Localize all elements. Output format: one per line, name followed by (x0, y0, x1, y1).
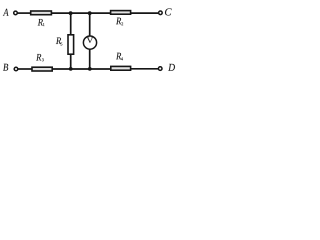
node C label (165, 8, 172, 15)
wire R4 to D (131, 68, 158, 70)
terminal A (14, 11, 18, 15)
wire R5 to bottom wire (70, 54, 72, 69)
label R2 (116, 18, 121, 25)
junction node H (bottom of voltmeter) (88, 67, 92, 71)
node A label (3, 9, 9, 16)
resistor R4 (111, 66, 131, 70)
junction node G (bottom of R5) (69, 67, 73, 71)
terminal B (14, 67, 18, 71)
resistor R5 (68, 35, 74, 54)
node D label (168, 64, 175, 71)
terminal C (159, 11, 163, 15)
node B label (3, 64, 8, 71)
resistor R1 (31, 11, 52, 15)
voltmeter U1 (83, 36, 96, 49)
label R1 (38, 19, 43, 26)
voltmeter V symbol (87, 38, 93, 43)
wire R1 to R2 (51, 12, 111, 14)
wire R3 to R4 (52, 68, 110, 70)
label R5 (56, 37, 61, 44)
wire node E down to R5 (70, 13, 72, 35)
wire B to R3 (18, 68, 33, 70)
wire A to R1 (18, 12, 32, 14)
label R3 (36, 54, 41, 61)
label R4 (116, 53, 121, 60)
wire voltmeter to bottom wire (89, 49, 91, 69)
junction node E (top of R5) (69, 11, 73, 15)
resistor R3 (32, 67, 52, 71)
terminal D (158, 67, 162, 71)
wire R2 to C (131, 12, 159, 14)
wire node F down to voltmeter (89, 13, 91, 36)
junction node F (top of voltmeter) (88, 11, 92, 15)
resistor R2 (111, 11, 131, 15)
